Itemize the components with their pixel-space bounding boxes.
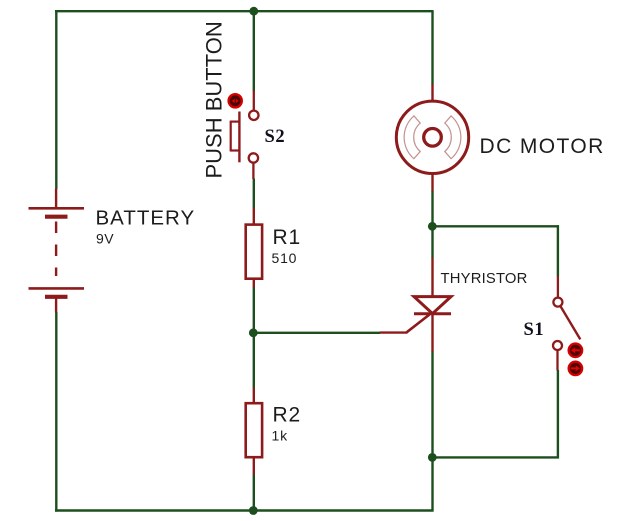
svg-text:BATTERY: BATTERY <box>96 207 196 230</box>
svg-text:9V: 9V <box>96 231 114 247</box>
push button S2 symbol <box>231 111 259 163</box>
junction: anode node <box>428 222 437 231</box>
svg-text:510: 510 <box>272 250 298 266</box>
wire: bottom rail <box>55 509 434 511</box>
wire: anode node to S1 branch (horizontal) <box>432 225 559 227</box>
wire: gate node down to R2 <box>253 333 255 388</box>
wire: S1 branch vertical upper <box>557 225 559 276</box>
dc motor M1 symbol <box>396 101 468 173</box>
svg-text:R2: R2 <box>273 404 301 427</box>
switch S1 bottom pin <box>556 350 558 371</box>
svg-text:S2: S2 <box>265 127 286 147</box>
switch S1 actuator up (red interactive button, left arrow) <box>569 344 582 357</box>
push button S2 bottom pin <box>252 163 254 179</box>
wire: thyristor cathode to cathode node <box>431 352 433 459</box>
wire: S1 branch vertical lower <box>557 370 559 459</box>
thyristor D1 anode pin <box>431 258 433 297</box>
resistor R2 bottom pin <box>253 457 255 475</box>
battery BT1 bottom pin <box>55 297 57 313</box>
svg-text:1k: 1k <box>272 428 289 444</box>
wire: from top node down to push button S2 <box>253 11 255 91</box>
battery BT1 symbol <box>29 208 85 296</box>
wire: S2 to R1 <box>253 179 255 209</box>
resistor R2 top pin <box>253 388 255 404</box>
wire: top rail from battery top to motor branch <box>55 10 434 12</box>
thyristor D1 symbol <box>380 297 452 333</box>
wire: motor to anode node <box>431 191 433 227</box>
resistor R1 bottom pin <box>253 279 255 288</box>
dc motor M1 bottom pin <box>431 174 433 192</box>
wire: anode node down to thyristor <box>431 226 433 258</box>
wire: S1 branch bottom horizontal to cathode node <box>432 456 559 458</box>
junction: cathode node <box>428 453 437 462</box>
junction: gate node <box>249 328 258 337</box>
svg-text:R1: R1 <box>273 226 301 249</box>
svg-text:S1: S1 <box>524 320 545 340</box>
battery BT1 top pin <box>55 189 57 209</box>
wire: R1 to gate node <box>253 287 255 333</box>
svg-text:DC MOTOR: DC MOTOR <box>480 135 605 158</box>
svg-text:PUSH BUTTON: PUSH BUTTON <box>202 21 227 178</box>
resistor R1 body <box>246 225 262 279</box>
resistor R1 top pin <box>253 208 255 225</box>
wire: cathode node to bottom rail <box>431 457 433 510</box>
push button S2 top pin <box>253 91 255 111</box>
switch S1 top pin <box>557 276 559 298</box>
wire: left vertical lower (battery negative to bottom rail) <box>55 312 57 512</box>
svg-text:THYRISTOR: THYRISTOR <box>441 271 528 287</box>
wire: left vertical upper (battery positive to top rail) <box>55 10 57 189</box>
push button S2 actuator (red interactive button) <box>229 94 242 107</box>
wire: gate node to thyristor gate <box>253 332 380 334</box>
switch S1 actuator down (red interactive button, right arrow) <box>569 362 582 375</box>
wire: R2 to bottom rail <box>253 474 255 510</box>
wire: top rail down to motor <box>431 11 433 84</box>
dc motor M1 top pin <box>431 84 433 102</box>
thyristor D1 cathode pin <box>431 314 433 352</box>
resistor R2 body <box>246 403 262 457</box>
junction: top node at push-button column <box>249 7 258 16</box>
junction: bottom node at R2 column <box>249 506 258 515</box>
switch S1 symbol <box>553 298 580 350</box>
